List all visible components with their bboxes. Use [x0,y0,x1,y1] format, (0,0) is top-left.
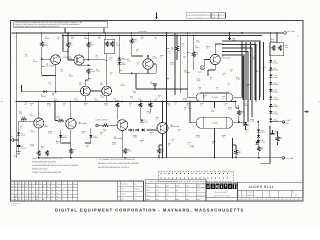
svg-text:12: 12 [25,189,27,191]
svg-text:47: 47 [25,193,27,195]
svg-text:D-662: D-662 [273,120,278,123]
svg-text:4-0-B131: 4-0-B131 [134,189,140,191]
svg-text:1754: 1754 [186,190,189,192]
svg-text:D662: D662 [156,186,160,188]
svg-text:DEC: DEC [156,190,159,192]
svg-text:R10(S) AND DIAG: R10(S) AND DIAG [32,168,48,171]
svg-text:12: 12 [73,196,75,198]
svg-text:S-1: S-1 [166,199,168,201]
svg-text:DEC 6534B: DEC 6534B [222,56,232,59]
svg-text:Q3: Q3 [36,196,38,198]
svg-text:D-662: D-662 [273,98,278,101]
svg-text:B131: B131 [156,195,159,197]
svg-text:2894: 2894 [197,199,200,201]
svg-text:D-662: D-662 [273,105,278,108]
svg-text:D1: D1 [56,196,58,198]
svg-text:6534: 6534 [146,195,149,197]
svg-text:68: 68 [43,186,45,188]
svg-text:4JD: 4JD [146,186,148,188]
svg-text:D1: D1 [11,183,13,185]
svg-text:47: 47 [62,193,64,195]
svg-text:A: A [118,189,119,191]
svg-text:A-PL: A-PL [134,199,137,201]
svg-text:* IS CONNECTED TO D ON 'A CHAS: * IS CONNECTED TO D ON 'A CHASSIS' [98,158,136,161]
svg-text:R2: R2 [56,183,58,185]
svg-text:C4: C4 [62,183,64,185]
svg-text:REV: REV [292,192,295,194]
svg-text:R2: R2 [73,183,75,185]
svg-text:2K: 2K [11,189,13,191]
svg-text:D662: D662 [186,186,190,188]
svg-text:D-662: D-662 [273,91,278,94]
svg-text:D662: D662 [146,199,150,201]
svg-text:Q3: Q3 [25,183,27,185]
svg-text:D662: D662 [176,186,180,188]
svg-text:ADDER B131: ADDER B131 [249,185,274,189]
svg-text:DEC 2894: DEC 2894 [46,64,54,67]
svg-text:B: B [219,17,220,19]
svg-text:12: 12 [25,196,27,198]
svg-text:DIGITAL EQUIPMENT CORPORATION: DIGITAL EQUIPMENT CORPORATION - MAYNARD,… [55,207,244,212]
svg-text:47: 47 [68,193,70,195]
svg-text:4JD: 4JD [156,199,158,201]
svg-text:Q3: Q3 [18,199,20,201]
svg-text:68: 68 [29,183,31,185]
svg-text:B131-0-1: B131-0-1 [247,194,254,197]
svg-text:LIST: LIST [121,199,124,201]
svg-text:D1: D1 [68,189,70,191]
svg-text:2894: 2894 [166,186,169,188]
svg-text:C: C [118,194,119,196]
svg-text:2K: 2K [73,186,75,188]
svg-text:ECO NO: ECO NO [196,17,201,19]
svg-text:C4: C4 [25,199,27,201]
svg-text:D1: D1 [18,196,20,198]
svg-text:68: 68 [15,199,17,201]
svg-text:SZ: SZ [238,192,240,194]
svg-text:UNLESS OTHERWISE INDICATED:: UNLESS OTHERWISE INDICATED: [32,157,63,160]
svg-text:47: 47 [47,196,49,198]
svg-text:750: 750 [70,43,73,46]
svg-text:R2: R2 [22,186,24,188]
svg-text:R2: R2 [11,186,13,188]
svg-text:R2: R2 [47,189,49,191]
svg-text:DEC: DEC [186,195,189,197]
svg-text:C4: C4 [15,183,17,185]
svg-text:Q3: Q3 [25,186,27,188]
svg-text:C4: C4 [32,193,34,195]
svg-text:(+A) +10V: (+A) +10V [287,30,296,33]
svg-text:DEC FORM NO: DEC FORM NO [11,203,21,205]
svg-text:AR RESISTORS ARE METAL FILM 1/: AR RESISTORS ARE METAL FILM 1/4W 1% CU/P… [32,164,78,167]
svg-text:B-1: B-1 [219,14,221,16]
svg-text:S-1: S-1 [176,195,178,197]
svg-text:B131: B131 [212,14,215,16]
svg-text:RESISTOR FROM PIN K TO PIN J: RESISTOR FROM PIN K TO PIN J [98,166,129,169]
svg-text:C446 E TRANSISTOR IS DEC650: C446 E TRANSISTOR IS DEC650 [32,171,61,174]
svg-text:2K: 2K [22,183,24,185]
svg-text:PRINTED CIRCUIT REV: PRINTED CIRCUIT REV [192,14,207,16]
svg-text:ECO: ECO [212,17,215,19]
svg-text:D-662: D-662 [273,112,278,115]
svg-text:2894: 2894 [197,190,200,192]
svg-text:D-662: D-662 [273,83,278,86]
svg-text:C4: C4 [36,193,38,195]
svg-text:47: 47 [56,199,58,201]
svg-text:2K: 2K [15,186,17,188]
svg-text:68: 68 [51,196,53,198]
svg-text:2K: 2K [73,189,75,191]
svg-text:B131: B131 [166,190,169,192]
svg-text:68: 68 [36,183,38,185]
svg-text:2K: 2K [51,183,53,185]
svg-text:RESISTORS ARE 1/4W; 5%: RESISTORS ARE 1/4W; 5% [32,161,56,164]
svg-text:D1: D1 [18,189,20,191]
svg-text:R2: R2 [51,189,53,191]
svg-text:CS: CS [242,192,244,194]
svg-text:B131: B131 [146,190,149,192]
svg-text:R2: R2 [11,193,13,195]
svg-text:T2 2XB: T2 2XB [212,122,219,125]
svg-text:D1: D1 [18,186,20,188]
svg-text:D662: D662 [197,186,201,188]
svg-text:2894: 2894 [186,199,189,201]
svg-text:68: 68 [39,183,41,185]
svg-text:DIAGRAM: DIAGRAM [121,184,129,186]
svg-text:D1: D1 [36,199,38,201]
svg-text:12: 12 [32,196,34,198]
svg-text:MODULE. AT R LOC (+15V) ON 'B: MODULE. AT R LOC (+15V) ON 'B CHASSIS' [98,162,139,165]
svg-text:C4: C4 [56,189,58,191]
svg-text:(+A) +10V: (+A) +10V [139,30,148,33]
svg-text:D1: D1 [43,199,45,201]
svg-text:12: 12 [18,193,20,195]
svg-text:C4: C4 [11,199,13,201]
svg-text:B131: B131 [134,194,138,196]
svg-text:68: 68 [22,193,24,195]
svg-text:D662: D662 [176,199,180,201]
svg-text:S-1: S-1 [197,195,199,197]
svg-text:NUMBER: NUMBER [247,192,253,194]
svg-text:2K: 2K [47,193,49,195]
svg-text:(C) -15V: (C) -15V [286,157,294,160]
svg-text:D1: D1 [47,186,49,188]
svg-text:47: 47 [29,199,31,201]
svg-text:68: 68 [43,193,45,195]
svg-text:DRB 102: DRB 102 [11,205,17,207]
svg-text:D-662: D-662 [273,61,278,64]
svg-text:1,500: 1,500 [91,70,95,73]
svg-text:12: 12 [39,193,41,195]
svg-text:D: D [118,199,119,201]
svg-text:47: 47 [29,186,31,188]
svg-text:47: 47 [29,196,31,198]
svg-text:C4: C4 [29,193,31,195]
svg-text:R2: R2 [56,193,58,195]
svg-text:C4: C4 [32,186,34,188]
svg-text:D-662: D-662 [273,76,278,79]
svg-text:T1 2XB: T1 2XB [212,96,219,99]
svg-text:Q3: Q3 [56,186,58,188]
svg-text:ASSY: ASSY [121,189,125,191]
svg-text:D1: D1 [62,189,64,191]
svg-text:CARRY INSERT: CARRY INSERT [95,118,107,121]
svg-text:R2: R2 [15,196,17,198]
svg-text:Q3: Q3 [47,183,49,185]
svg-text:C4: C4 [15,189,17,191]
svg-text:2K: 2K [51,193,53,195]
